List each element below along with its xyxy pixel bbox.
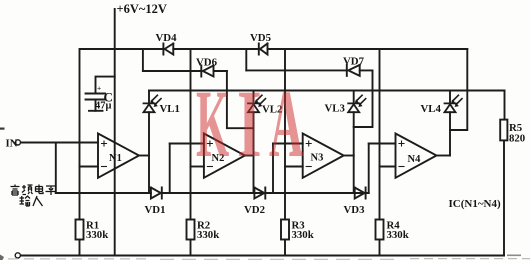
LED VL1 [144, 95, 162, 112]
wire VL3 column [353, 91, 355, 194]
svg-text:N1: N1 [109, 153, 122, 164]
wire N3 inverting input [285, 166, 303, 168]
wire top rail H1 [80, 48, 467, 50]
wire VD6 branch [143, 70, 227, 72]
svg-text:+6V~12V: +6V~12V [117, 2, 167, 16]
svg-text:VD5: VD5 [250, 32, 271, 44]
svg-text:N4: N4 [408, 154, 422, 165]
op-amp N1 [98, 134, 139, 178]
wire N2 plus riser [169, 144, 171, 194]
wire N4 plus input [369, 143, 396, 145]
wire N2 plus input [170, 143, 204, 145]
svg-text:+: + [97, 83, 101, 92]
wire VL4 column [449, 91, 451, 156]
capacitor C1 tap [96, 77, 115, 111]
svg-text:330k: 330k [292, 229, 314, 241]
svg-text:IN: IN [6, 138, 18, 150]
diode VD4 [163, 44, 173, 55]
svg-text:VL1: VL1 [160, 103, 180, 115]
wire IN line [20, 142, 98, 144]
wire rail drop N4 ref [379, 49, 381, 256]
op-amp N4 [396, 134, 437, 178]
scan artifact corner marks [0, 128, 521, 260]
svg-text:VL4: VL4 [421, 103, 442, 115]
wire N1 inverting input [80, 166, 99, 168]
svg-text:IC(N1~N4): IC(N1~N4) [449, 198, 501, 210]
wire rail drop to VD7 wire [245, 49, 247, 70]
wire rail to VD6 [142, 49, 144, 71]
svg-text:VD4: VD4 [156, 32, 178, 44]
diode VD2 [254, 188, 265, 199]
LED VL4 [445, 95, 463, 112]
diode VD1 [151, 188, 162, 199]
wire N4 output [437, 155, 451, 157]
wire rail end drop to VL4 node [450, 49, 467, 130]
diode VD3 [355, 188, 366, 199]
scan artifact bottom edge [8, 258, 530, 260]
wire N3 plus input [273, 143, 303, 145]
LED VL3 [348, 95, 366, 112]
svg-text:330k: 330k [86, 229, 108, 241]
wire VD7 branch [246, 69, 372, 71]
node IN terminal [15, 140, 20, 145]
wire H3 rail [149, 90, 505, 92]
svg-text:VD3: VD3 [344, 204, 366, 216]
watermark KIA [0, 0, 530, 1]
svg-text:330k: 330k [387, 229, 409, 241]
node ground terminal [15, 253, 20, 258]
wire rail drop N3 ref [284, 49, 286, 256]
wire VD7 to VL3 node [354, 70, 373, 127]
svg-text:N3: N3 [311, 153, 324, 164]
svg-text:VD2: VD2 [244, 204, 265, 216]
svg-text:820: 820 [509, 133, 525, 145]
svg-text:VD7: VD7 [343, 56, 365, 68]
diode VD5 [259, 44, 268, 55]
resistor R2 [187, 220, 195, 240]
wire rail drop N2 ref [190, 49, 192, 256]
label audio level input (Chinese) line1 [11, 185, 57, 196]
wire bottom rail [20, 255, 505, 257]
resistor R4 [376, 220, 384, 240]
svg-text:VL3: VL3 [325, 103, 346, 115]
resistor R3 [281, 220, 289, 240]
wire N3 output [344, 155, 354, 157]
wire N4 plus riser [368, 144, 370, 194]
wire N4 inverting input [380, 166, 396, 168]
wire N2 inverting input [191, 166, 204, 168]
wire power column [114, 9, 116, 256]
resistor R1 [76, 220, 84, 240]
diode VD6 [201, 66, 213, 77]
wire VL1 column [148, 91, 150, 194]
wire VD6 to VL2 node [227, 71, 254, 128]
wire R5 column [503, 91, 506, 256]
LED VL2 [248, 95, 266, 112]
svg-text:VD1: VD1 [145, 204, 166, 216]
svg-text:VD6: VD6 [196, 57, 218, 69]
wire N3 plus riser [272, 144, 274, 194]
wire bus [56, 192, 369, 194]
svg-text:47μ: 47μ [95, 101, 112, 112]
op-amp N2 [204, 134, 245, 178]
wire N1 output [139, 155, 149, 157]
wire VL2 column [253, 91, 255, 194]
wire N2 output [245, 155, 254, 157]
diode VD7 [347, 65, 360, 76]
label audio level input (Chinese) line2 [20, 196, 43, 206]
wire rail drop left [79, 49, 81, 256]
wire input riser [55, 143, 57, 194]
op-amp N3 [303, 134, 344, 178]
capacitor C1 plates [86, 94, 106, 111]
svg-text:330k: 330k [197, 229, 219, 241]
resistor R5 [500, 120, 507, 141]
